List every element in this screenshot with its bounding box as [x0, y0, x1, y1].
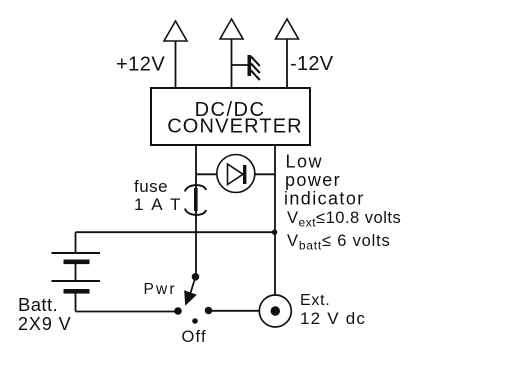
svg-text:12 V dc: 12 V dc — [300, 309, 366, 328]
ext jack J1 — [259, 295, 291, 327]
svg-text:Pwr: Pwr — [144, 281, 177, 298]
svg-text:2X9 V: 2X9 V — [18, 314, 72, 334]
wire LED right — [255, 173, 275, 175]
node A junction — [272, 230, 277, 235]
svg-text:+12V: +12V — [116, 54, 165, 76]
switch S1 Pwr/Off — [174, 273, 212, 324]
wire battery bottom to switch — [76, 311, 179, 313]
arrow ground output — [220, 19, 243, 39]
wire battery top to node A — [76, 231, 276, 233]
battery BT1 — [52, 232, 101, 311]
svg-text:-12V: -12V — [290, 53, 334, 75]
wire -12V to converter — [286, 39, 288, 88]
wire switch to ext jack — [211, 310, 260, 312]
wire converter to fuse/switch branch — [195, 145, 197, 188]
svg-text:CONVERTER: CONVERTER — [167, 116, 303, 138]
svg-text:1 A T: 1 A T — [134, 195, 182, 214]
LED D1 low power indicator — [217, 155, 255, 193]
svg-text:Batt.: Batt. — [18, 294, 58, 315]
wire converter right branch — [274, 145, 276, 295]
svg-text:fuse: fuse — [134, 177, 168, 196]
arrow -12V output — [276, 19, 299, 39]
wire +12V to converter — [175, 41, 177, 88]
svg-text:power: power — [285, 170, 341, 190]
chassis ground — [232, 55, 260, 80]
wire LED left — [196, 173, 217, 175]
DC/DC converter U1 — [151, 88, 310, 145]
wire ground to converter — [231, 39, 233, 88]
svg-text:Ext.: Ext. — [300, 292, 330, 309]
svg-text:indicator: indicator — [284, 189, 365, 209]
svg-text:Off: Off — [182, 328, 207, 346]
arrow +12V output — [164, 21, 187, 41]
svg-text:Low: Low — [286, 152, 324, 172]
fuse F1 1AT — [185, 185, 206, 215]
wire fuse to switch pole — [195, 211, 197, 277]
